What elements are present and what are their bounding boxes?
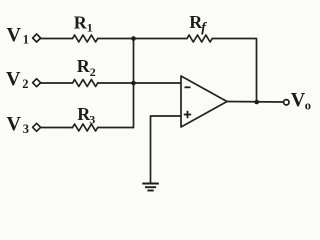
- resistor R1: [73, 35, 98, 42]
- junction summing node A (R1/Rf): [131, 36, 136, 41]
- label V2: [6, 68, 29, 91]
- label V3: [7, 113, 30, 136]
- node V3 input terminal: [33, 123, 41, 131]
- svg-text:2: 2: [22, 77, 28, 91]
- wire op-amp output to Vo terminal: [227, 101, 284, 104]
- svg-text:2: 2: [90, 65, 96, 79]
- svg-text:V: V: [7, 24, 22, 46]
- pin minus (inverting input marker): [185, 86, 191, 88]
- ground: [142, 184, 159, 191]
- label V1: [7, 24, 30, 47]
- node V1 input terminal: [33, 34, 41, 42]
- svg-text:1: 1: [23, 33, 29, 47]
- wire V3 terminal to R3: [41, 127, 73, 129]
- op-amp U1: [181, 76, 227, 127]
- svg-text:o: o: [305, 99, 311, 113]
- label Vo: [291, 89, 311, 113]
- wire V1 terminal to R1: [41, 38, 73, 40]
- svg-text:R: R: [74, 12, 88, 32]
- wire summing node to Rf: [134, 38, 188, 40]
- svg-text:V: V: [6, 68, 21, 90]
- svg-text:f: f: [201, 21, 207, 36]
- wire R1 to summing node: [98, 38, 134, 40]
- svg-text:V: V: [291, 89, 306, 111]
- svg-text:R: R: [77, 56, 91, 76]
- resistor Rf: [187, 35, 212, 42]
- resistor R3: [73, 124, 98, 131]
- svg-text:1: 1: [87, 21, 93, 35]
- label Rf: [189, 12, 207, 35]
- node Vo output terminal: [284, 100, 289, 105]
- label R1: [74, 12, 93, 34]
- wire op-amp non-inverting input to ground: [151, 116, 182, 184]
- resistor R2: [73, 80, 98, 87]
- junction output node: [254, 100, 259, 105]
- junction summing node B (R2/inverting input): [131, 81, 136, 86]
- wire summing bus vertical: [133, 39, 135, 128]
- wire Rf to output node: [212, 39, 256, 103]
- label R3: [77, 104, 95, 126]
- node V2 input terminal: [33, 79, 41, 87]
- pin plus (non-inverting input marker): [184, 111, 191, 118]
- svg-text:3: 3: [89, 112, 95, 126]
- wire R3 to summing bus: [98, 127, 134, 129]
- svg-text:V: V: [7, 113, 22, 135]
- svg-text:3: 3: [23, 122, 29, 136]
- label R2: [77, 56, 96, 79]
- wire R2 to summing node and op-amp inverting input: [98, 82, 181, 84]
- wire V2 terminal to R2: [41, 82, 73, 84]
